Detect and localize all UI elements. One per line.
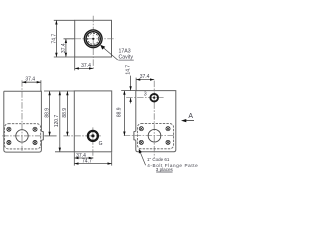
dim 120.7 (B): line — [59, 91, 61, 152]
dim 14.7 down arrow — [129, 86, 131, 90]
dim 74.7 top view left: line — [55, 20, 57, 57]
dim 37.4 below front view: line — [74, 157, 93, 159]
extension line top between views — [44, 90, 74, 92]
dim 74.7 below front: extension left — [73, 152, 75, 165]
right port vertical centerline — [153, 81, 155, 159]
right flange port bore circle — [148, 129, 161, 142]
svg-text:88.9: 88.9 — [116, 107, 122, 117]
flange note underline — [156, 171, 172, 173]
right flange horizontal centerline — [124, 135, 175, 137]
extension line bottom 120.7 — [55, 151, 74, 153]
left flange bolt hole bottom-right — [33, 140, 37, 144]
svg-text:3 places: 3 places — [156, 167, 174, 172]
right flange face rounded square — [137, 124, 173, 149]
left flange horizontal centerline — [2, 135, 46, 137]
svg-text:88.9: 88.9 — [45, 108, 51, 118]
dim 74.7 arrows — [55, 20, 57, 57]
svg-text:37.4: 37.4 — [25, 77, 35, 83]
port G ring — [88, 131, 98, 141]
left flange vertical centerline — [21, 80, 23, 151]
front port G horizontal centerline — [63, 135, 100, 137]
svg-text:37.4: 37.4 — [61, 43, 67, 53]
front view body rectangle — [74, 91, 111, 152]
dim 37.4 above right view: line — [136, 79, 154, 81]
dim 74.7 below front: extension right — [111, 152, 113, 165]
dim 37.4 below top view arrows — [75, 67, 94, 69]
svg-text:88.9: 88.9 — [62, 108, 68, 118]
dim 37.4 top view left: extension mid — [64, 38, 75, 40]
svg-text:Cavity: Cavity — [119, 55, 134, 61]
right view body outline — [136, 91, 176, 152]
svg-text:37.4: 37.4 — [140, 74, 150, 80]
svg-text:14.7: 14.7 — [125, 65, 131, 75]
right port horizontal centerline — [126, 97, 163, 99]
extension line mid-left 88.9 — [45, 135, 57, 137]
flange note leader — [139, 150, 145, 165]
dim 37.4 above right arrows — [136, 78, 154, 80]
dim 88.9 left (A): line — [49, 91, 51, 136]
dim 37.4 above left arrows — [22, 81, 41, 83]
right flange bolt hole bottom-left — [139, 140, 143, 144]
dim 14.7 up arrow — [129, 98, 131, 102]
left flange bolt hole top-left — [7, 127, 11, 131]
left view side boss — [41, 131, 43, 140]
left flange bolt hole bottom-left — [7, 140, 11, 144]
dim 37.4 above right: left extension — [135, 78, 137, 91]
cavity inner bore circle — [88, 33, 99, 44]
right view left boss — [134, 131, 136, 140]
right top port ring — [150, 94, 158, 102]
cavity 17A3 outer counterbore ring — [85, 31, 101, 47]
cavity label underline — [118, 59, 134, 61]
svg-text:37.4: 37.4 — [81, 63, 91, 69]
leader arrowhead — [100, 45, 105, 50]
section arrow A — [181, 119, 186, 122]
section arrow A shaft — [186, 120, 194, 122]
dim 37.4 top left arrows — [65, 39, 67, 57]
dim 37.4 top view left: line — [65, 39, 67, 57]
svg-text:74.7: 74.7 — [82, 159, 92, 165]
dim 88.9 A arrows — [48, 91, 50, 136]
svg-text:G: G — [99, 141, 103, 147]
cavity horizontal centerline — [64, 38, 116, 40]
right top port center dot — [153, 97, 155, 99]
dim 37.4 above left view: right extension — [40, 80, 42, 91]
dim 120.7 B arrows — [59, 91, 61, 152]
top view body square — [75, 20, 112, 57]
front port G vertical centerline — [92, 127, 94, 160]
dim 88.9 C arrows — [66, 91, 68, 136]
flange note leader arrowhead — [139, 149, 142, 154]
dim 37.4 below top view: extension left — [74, 58, 76, 71]
dim 88.9 right of pair (C): line — [66, 91, 68, 136]
dim 74.7 top view left: extension bottom — [54, 56, 75, 58]
cavity thread ring — [85, 31, 101, 47]
leader to cavity — [101, 46, 118, 60]
left flange port bore circle — [16, 130, 28, 142]
dim 14.7: upper line with down arrow — [130, 76, 132, 91]
svg-text:A: A — [188, 113, 193, 120]
dim 37.4 below front arrows — [74, 157, 93, 159]
dim 88.9 right arrows — [123, 91, 125, 136]
left flange face rounded square — [5, 124, 41, 149]
right flange bolt hole top-right — [166, 127, 170, 131]
dim 88.9 right view: line — [123, 91, 125, 136]
right flange bolt hole bottom-right — [166, 140, 170, 144]
svg-text:74.7: 74.7 — [52, 34, 58, 44]
dim 74.7 below front arrows — [74, 162, 111, 164]
port G center dot — [91, 134, 94, 137]
cavity vertical centerline — [92, 16, 94, 70]
left flange bolt hole top-right — [33, 127, 37, 131]
left view body outline — [4, 91, 42, 152]
right flange bolt hole top-left — [139, 127, 143, 131]
right 88.9 top extension — [121, 90, 136, 92]
svg-text:1" Code 61: 1" Code 61 — [147, 157, 170, 162]
svg-text:3: 3 — [144, 91, 147, 97]
svg-text:120.7: 120.7 — [54, 115, 60, 128]
dim 37.4 below top view: line — [75, 67, 94, 69]
dim 74.7 below front: line — [74, 163, 111, 165]
dim 14.7 lower stub with up arrow — [130, 98, 132, 104]
dim 74.7 top view left: extension top — [54, 19, 75, 21]
cavity center dot — [92, 38, 94, 40]
dim 37.4 above left view: line — [22, 81, 41, 83]
